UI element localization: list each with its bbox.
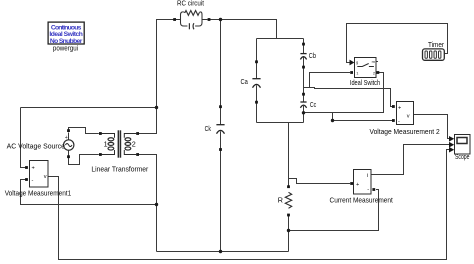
- svg-text:2: 2: [132, 140, 136, 149]
- svg-text:Linear Transformer: Linear Transformer: [91, 164, 148, 173]
- port: R bottom: [287, 214, 290, 217]
- wire: RC input from left rail: [157, 19, 175, 21]
- svg-text:i: i: [367, 173, 368, 179]
- port: Ck top: [219, 105, 222, 108]
- svg-text:+: +: [398, 105, 401, 111]
- port: VM1 +: [25, 166, 28, 169]
- wire: left rail x=21 down to VM1 +: [21, 108, 27, 168]
- wire: timer to switch gate: [347, 24, 448, 63]
- powergui block: [48, 22, 84, 44]
- svg-text:v: v: [407, 113, 410, 119]
- svg-text:v: v: [44, 174, 47, 180]
- wire: bottom return to R: [157, 251, 289, 253]
- capacitor Ck: [216, 125, 224, 134]
- wire: VM1 v output along bottom to scope input 3: [48, 150, 449, 260]
- wire: transformer secondary top to rail: [139, 133, 157, 135]
- port: Cb top: [302, 43, 305, 46]
- svg-text:g: g: [356, 59, 358, 64]
- port: CM -: [372, 188, 375, 191]
- capacitor Cb: [300, 54, 306, 60]
- svg-text:Timer: Timer: [428, 40, 445, 49]
- svg-text:-: -: [32, 178, 34, 184]
- wire: header left to Ca: [257, 38, 277, 40]
- wire: CM i output to scope input 2: [371, 145, 449, 175]
- port: Ck bottom: [219, 148, 222, 151]
- port squares: [25, 18, 395, 216]
- port: transformer 1 bottom: [99, 153, 102, 156]
- scope input arrows: [449, 136, 454, 153]
- scope block: [455, 135, 471, 155]
- wire: Cb bottom to Cc top: [303, 57, 305, 101]
- wire: Ca bottom lead: [256, 85, 258, 122]
- svg-text:R: R: [278, 196, 283, 205]
- wire: VM2 v output to scope input 1: [413, 115, 449, 139]
- svg-text:Cb: Cb: [309, 51, 316, 60]
- linear transformer T1: [102, 130, 138, 157]
- port: switch 1: [350, 71, 353, 74]
- node: VM2- branch junction: [331, 119, 334, 122]
- svg-text:-: -: [398, 119, 400, 125]
- node: rail/VM1- junction: [155, 203, 158, 206]
- voltage measurement VM1: [30, 161, 49, 188]
- wire: R bottom to CM minus: [289, 190, 379, 231]
- wire: R top branch: [288, 123, 290, 188]
- port: VM2 +: [392, 105, 395, 108]
- wire: switch m stub: [376, 61, 378, 63]
- port: Cc top: [302, 93, 305, 96]
- wire: AC source top lead: [68, 133, 70, 140]
- wire: branch to VM2 minus: [333, 113, 393, 121]
- port: transformer 1 top: [99, 132, 102, 135]
- wire: Cc bottom lead: [303, 106, 305, 123]
- RC circuit block: [176, 11, 208, 30]
- svg-text:Voltage Measurement 2: Voltage Measurement 2: [370, 127, 440, 136]
- port: CM +: [350, 182, 353, 185]
- wire: node to switch port 1: [304, 73, 351, 88]
- svg-text:Scope: Scope: [455, 152, 470, 161]
- svg-text:Cc: Cc: [310, 100, 317, 109]
- wire: left rail upper segment: [156, 19, 158, 134]
- port: AC bottom: [67, 155, 70, 158]
- current measurement CM: [354, 170, 372, 195]
- gate input arrow: [350, 60, 355, 66]
- svg-text:+: +: [65, 135, 68, 141]
- port: VM1 -: [25, 178, 28, 181]
- svg-text:Ca: Ca: [241, 77, 248, 86]
- wire: VM1 - loop to bottom node: [21, 180, 157, 205]
- wire: node to VM2 plus: [310, 88, 393, 107]
- node: Ck bottom junction: [219, 250, 222, 253]
- port: VM2 -: [392, 119, 395, 122]
- port: Ca bottom: [255, 101, 258, 104]
- ideal switch U2: [355, 58, 377, 78]
- node: rail/VM1+ junction: [155, 106, 158, 109]
- svg-text:+: +: [356, 182, 359, 188]
- svg-text:Ck: Ck: [205, 124, 212, 133]
- wire: AC source bottom lead: [68, 150, 70, 156]
- wire: RC output to capacitor header: [210, 20, 304, 39]
- wire: AC source plus jog to winding 1 top: [69, 128, 99, 134]
- svg-text:Ideal Switch: Ideal Switch: [350, 78, 380, 87]
- wire: Ck top lead from dot: [220, 20, 222, 125]
- wire: Ca top lead: [256, 39, 258, 79]
- svg-text:RC circuit: RC circuit: [177, 0, 204, 7]
- wire: R bottom lead to return: [288, 215, 290, 252]
- port: RC in: [173, 18, 176, 21]
- wire: Ck bottom lead: [220, 131, 222, 251]
- wire: switch port2 down: [304, 73, 384, 113]
- voltage measurement VM2: [397, 102, 414, 125]
- svg-text:Current Measurement: Current Measurement: [330, 195, 393, 204]
- svg-text:-: -: [367, 187, 369, 193]
- wire: horizontal to VM1/+ rail: [21, 107, 157, 109]
- capacitor Cc: [300, 102, 306, 108]
- resistor R: [285, 192, 291, 208]
- node: Ck top junction: [219, 18, 222, 21]
- wire: Ca bottom to Cc bottom node: [257, 122, 304, 124]
- svg-text:Voltage Measurement1: Voltage Measurement1: [5, 188, 72, 197]
- wire: branch to CM plus: [289, 179, 351, 184]
- node: Cc bottom junction: [302, 111, 305, 114]
- wire: rail B secondary bottom down: [139, 155, 157, 252]
- port: Cb bottom: [302, 66, 305, 69]
- port: AC top: [67, 129, 70, 132]
- port: transformer 2 bottom: [136, 153, 139, 156]
- port: transformer 2 top: [136, 132, 139, 135]
- port: Ca top: [255, 60, 258, 63]
- svg-text:+: +: [32, 166, 35, 172]
- port: switch 2: [377, 71, 380, 74]
- svg-text:AC Voltage Source: AC Voltage Source: [7, 142, 65, 151]
- port: RC out: [208, 18, 211, 21]
- svg-text:1: 1: [104, 140, 108, 149]
- node: R / CM- junction: [287, 229, 290, 232]
- svg-text:powergui: powergui: [53, 44, 79, 53]
- capacitor Ca: [252, 79, 260, 88]
- port: R top: [287, 185, 290, 188]
- timer block: [423, 49, 445, 60]
- wire: Cb top lead: [303, 39, 305, 54]
- AC voltage source U1: [63, 140, 73, 150]
- wire: AC source minus jog to winding 1 bottom: [69, 155, 99, 165]
